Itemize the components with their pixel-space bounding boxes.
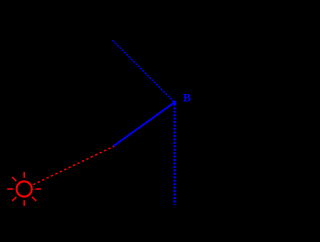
- sun ray E: [35, 188, 41, 190]
- sight ray (red dashed from sun to bend): [33, 146, 114, 184]
- sun ray S: [23, 200, 25, 206]
- normal line (blue dotted vertical below B): [174, 104, 176, 205]
- sun circle: [17, 181, 32, 196]
- sun ray SE: [32, 197, 36, 201]
- refracted ray (blue solid from bend to B): [113, 102, 175, 146]
- sun ray W: [7, 188, 13, 190]
- point B marker (filled square): [173, 101, 176, 104]
- label B: [183, 91, 191, 104]
- sun ray SW: [12, 197, 16, 201]
- incident ray (blue dashed 45 degrees): [113, 40, 175, 102]
- sun ray NW: [12, 177, 16, 181]
- sun ray N: [23, 172, 25, 178]
- svg-text:B: B: [183, 91, 191, 104]
